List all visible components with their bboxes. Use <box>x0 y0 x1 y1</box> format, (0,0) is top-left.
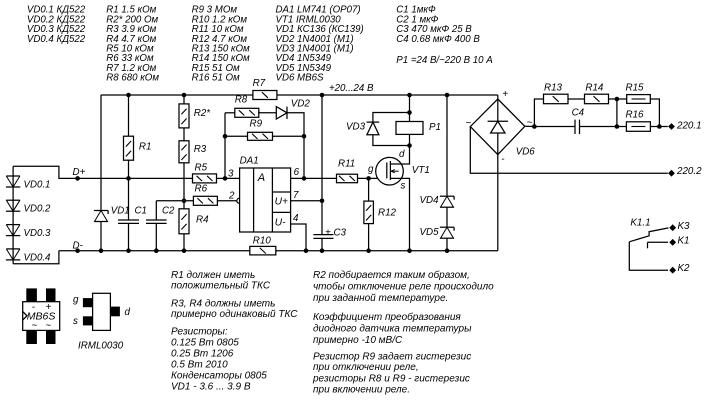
svg-text:R3, R4 должны иметь: R3, R4 должны иметь <box>171 299 275 310</box>
svg-text:при заданной температуре.: при заданной температуре. <box>313 293 448 304</box>
node R2 top <box>182 93 187 98</box>
capacitor C1 <box>118 219 139 221</box>
VT1 body arrow <box>390 170 398 172</box>
svg-text:VD4: VD4 <box>420 195 440 206</box>
svg-text:R2 подбирается таким образом,: R2 подбирается таким образом, <box>313 269 470 281</box>
svg-text:K1: K1 <box>678 236 690 247</box>
terminal 220.1 <box>668 123 675 130</box>
wire R11 to gate <box>358 177 387 179</box>
node VD4 column top <box>445 93 450 98</box>
resistor R11 <box>337 174 358 183</box>
node VD3/P1 top <box>407 110 412 115</box>
node pin3/feedback junction <box>223 176 228 181</box>
wire D- rail right section <box>276 250 498 252</box>
resistor R15 <box>627 95 651 104</box>
wire pin 6 <box>291 177 337 179</box>
wire diode-chain left vertical <box>12 166 14 263</box>
svg-text:резисторы R8 и R9 - гистерезис: резисторы R8 и R9 - гистерезис <box>312 374 470 385</box>
wire R8 line <box>225 112 236 114</box>
resistor R10 <box>250 246 276 255</box>
diode VD0.4 <box>6 259 20 261</box>
wire VD1 column <box>100 95 102 210</box>
wire R14 to node <box>608 98 617 100</box>
wire R1 to D+ rail <box>128 160 130 179</box>
svg-text:~: ~ <box>527 118 533 129</box>
zener VD4 <box>440 195 454 197</box>
svg-text:R13: R13 <box>544 82 563 93</box>
wire R2 column top <box>183 95 185 104</box>
svg-text:s: s <box>401 180 406 191</box>
svg-text:7: 7 <box>293 190 299 201</box>
svg-text:R6: R6 <box>195 183 208 194</box>
VT1 drain stub <box>390 146 409 165</box>
wire R2-R3 link <box>183 128 185 141</box>
wire VD3 branch top <box>373 113 410 123</box>
wire P1 bottom link <box>409 134 411 145</box>
diode VD0.2 <box>6 210 20 212</box>
svg-text:VD0.4: VD0.4 <box>24 252 52 263</box>
resistor R8 <box>235 108 259 117</box>
wire bridge plus drop <box>497 95 499 99</box>
svg-text:2: 2 <box>228 191 235 202</box>
wire pin 7 <box>291 200 322 202</box>
svg-text:C4: C4 <box>572 108 585 119</box>
svg-text:P1: P1 <box>429 122 441 133</box>
op-amp DA1 body <box>240 168 291 232</box>
svg-text:~: ~ <box>32 321 38 332</box>
node pin7/C3 junction <box>320 199 325 204</box>
node R9 right <box>302 134 307 139</box>
IRML0030 gate pad <box>83 298 93 307</box>
svg-text:VD6 MB6S: VD6 MB6S <box>276 73 324 84</box>
left feedback column <box>224 113 226 179</box>
svg-text:R1: R1 <box>139 141 152 152</box>
wire VD5 to D- rail <box>446 238 448 251</box>
svg-text:d: d <box>399 149 405 160</box>
wire C1 column <box>128 178 130 220</box>
svg-text:D+: D+ <box>73 167 86 178</box>
wire R1 column top <box>128 95 130 137</box>
svg-text:VD0.3: VD0.3 <box>24 228 52 239</box>
node pin4 bottom <box>304 248 309 253</box>
svg-text:VD6: VD6 <box>516 147 536 158</box>
terminal K2 <box>669 267 676 274</box>
wire chain bottom jog to D- <box>13 251 59 264</box>
wire R5 to pin 3 <box>217 177 240 179</box>
svg-text:R8 680 кОм: R8 680 кОм <box>106 73 159 84</box>
diode VD0.3 <box>6 235 20 237</box>
svg-text:d: d <box>125 307 131 318</box>
MB6S package bottom pads <box>26 330 37 344</box>
relay contact K1.1 common pole <box>629 242 668 270</box>
bridge internal diode <box>497 99 499 121</box>
node pin6 junction <box>302 176 307 181</box>
wire top bias rail right of R7 <box>276 94 498 96</box>
node C3 column top <box>320 93 325 98</box>
node gate/R12 junction <box>366 176 371 181</box>
svg-text:R16: R16 <box>626 110 645 121</box>
svg-text:R5: R5 <box>195 163 208 174</box>
svg-text:R2*: R2* <box>194 108 212 119</box>
zener VD5 <box>440 226 454 228</box>
svg-text:g: g <box>368 164 374 175</box>
transistor VT1 body circle <box>376 157 404 185</box>
node C1 bottom <box>126 248 131 253</box>
svg-text:R14: R14 <box>585 82 604 93</box>
wire R8 to VD2 <box>258 112 276 114</box>
VT1 channel bar <box>389 161 391 180</box>
svg-text:~: ~ <box>46 321 52 332</box>
node R3/R4/pin2 junction <box>182 199 187 204</box>
vertical R14/C4 link <box>616 99 618 127</box>
wire VD4 to VD5 <box>446 207 448 227</box>
svg-text:Резисторы:: Резисторы: <box>171 327 228 338</box>
wire C2 to D- rail <box>155 223 157 250</box>
resistor R2* <box>179 104 189 128</box>
svg-text:R8: R8 <box>235 94 248 105</box>
svg-text:при включении реле.: при включении реле. <box>313 385 410 396</box>
wire to R15 <box>617 98 627 100</box>
svg-text:R3: R3 <box>194 144 207 155</box>
node C4/R16 junction <box>615 124 620 129</box>
VT1 gate bar <box>386 163 388 179</box>
svg-text:220.2: 220.2 <box>676 166 702 177</box>
wire bridge AC right to node <box>525 125 535 127</box>
svg-text:R1 должен иметь: R1 должен иметь <box>171 270 255 281</box>
svg-text:K3: K3 <box>678 221 691 232</box>
bridge rectifier VD6 diamond <box>470 99 525 155</box>
svg-text:D-: D- <box>73 240 84 251</box>
node D- <box>75 248 80 253</box>
svg-text:0.125 Вт 0805: 0.125 Вт 0805 <box>171 337 239 348</box>
node R12 bottom <box>366 248 371 253</box>
resistor R3 <box>179 141 189 163</box>
wire chain top jog to D+ <box>13 166 78 178</box>
node R9 left <box>223 134 228 139</box>
op-amp internal dividers <box>253 168 255 232</box>
wire VD4/VD5 column <box>446 95 448 196</box>
node R1 top <box>126 93 131 98</box>
svg-text:6: 6 <box>294 167 300 178</box>
svg-text:VT1: VT1 <box>412 165 430 176</box>
diode VD3 <box>367 121 380 123</box>
svg-text:C2: C2 <box>162 206 175 217</box>
IRML0030 drain pad <box>110 307 120 317</box>
svg-text:R12: R12 <box>378 208 397 219</box>
svg-text:U+: U+ <box>275 196 288 207</box>
resistor R1 <box>124 136 134 160</box>
VT1 source stub <box>390 178 409 250</box>
svg-text:R15: R15 <box>626 82 645 93</box>
svg-text:примерно -10 мВ/С: примерно -10 мВ/С <box>313 335 403 346</box>
svg-text:0.25 Вт 1206: 0.25 Вт 1206 <box>171 348 234 359</box>
wire C4 line left <box>534 126 575 128</box>
svg-text:VD3: VD3 <box>346 121 366 132</box>
node VD1 bottom <box>99 248 104 253</box>
svg-text:R16 51 Ом: R16 51 Ом <box>192 73 240 84</box>
wire R12 to D- rail <box>368 224 370 251</box>
node C2 bottom <box>154 248 159 253</box>
resistor R4 <box>179 209 189 234</box>
diode VD2 <box>276 107 287 119</box>
terminal K3 <box>669 224 676 231</box>
wire bridge minus drop to D- rail <box>497 155 499 251</box>
node VD5 bottom <box>445 248 450 253</box>
wire R15 right corner down <box>650 99 659 127</box>
wire P1 column from rail <box>409 95 411 122</box>
terminal 220.2 <box>668 170 675 177</box>
svg-text:R11: R11 <box>338 158 355 169</box>
svg-text:Резистор R9 задает гистерезис: Резистор R9 задает гистерезис <box>313 352 471 363</box>
svg-text:4: 4 <box>293 213 299 224</box>
svg-text:примерно одинаковый ТКС: примерно одинаковый ТКС <box>171 309 298 320</box>
resistor R14 <box>585 94 609 104</box>
node C4/R13 junction <box>532 124 537 129</box>
IRML0030 package body <box>93 293 111 330</box>
wire R9 line right <box>273 135 305 137</box>
svg-text:R10: R10 <box>253 235 272 246</box>
relay coil P1 <box>396 122 423 135</box>
node P1 column top <box>407 93 412 98</box>
svg-text:+: + <box>502 89 508 100</box>
resistor R12 <box>364 201 374 224</box>
wire D+ rail to R5 <box>78 177 193 179</box>
svg-text:+ C3: + C3 <box>325 227 347 238</box>
wire up to R13 line <box>534 99 543 127</box>
node C3 bottom <box>320 248 325 253</box>
svg-text:VD2: VD2 <box>291 98 311 109</box>
K1 fixed contact <box>648 241 669 243</box>
wire C3 to D- rail <box>321 238 323 250</box>
wire R16 right <box>650 126 667 128</box>
svg-text:IRML0030: IRML0030 <box>78 340 124 351</box>
wire 220.2 line from bridge AC left <box>470 127 668 174</box>
wire top bias rail left of R7 <box>101 94 253 96</box>
svg-text:s: s <box>73 316 78 327</box>
svg-text:Конденсаторы 0805: Конденсаторы 0805 <box>171 370 267 381</box>
svg-text:диодного датчика температуры: диодного датчика температуры <box>313 324 472 335</box>
svg-text:VD5: VD5 <box>420 227 440 238</box>
wire pin 4 <box>291 224 306 251</box>
wire to R16 <box>617 126 626 128</box>
resistor R13 <box>544 94 569 104</box>
svg-text:при отключении реле,: при отключении реле, <box>313 362 419 373</box>
svg-text:VD0.4 КД522: VD0.4 КД522 <box>27 34 86 45</box>
diode VD0.1 <box>6 186 20 188</box>
node R15/R16 right junction <box>657 124 662 129</box>
svg-text:VD1: VD1 <box>111 206 130 217</box>
svg-text:VD0.2: VD0.2 <box>24 204 52 215</box>
svg-text:R4: R4 <box>196 215 209 226</box>
node R14/R15 junction <box>615 97 620 102</box>
wire R4 links <box>183 201 185 209</box>
resistor R9 <box>248 132 273 140</box>
node R4 bottom <box>182 248 187 253</box>
wire R9 line left <box>225 135 248 137</box>
node R1/C1/D+ junction <box>126 176 131 181</box>
svg-text:A: A <box>257 172 265 184</box>
svg-text:VD0.1: VD0.1 <box>24 180 51 191</box>
K1.1 moving arm <box>629 228 668 242</box>
svg-text:+20...24 В: +20...24 В <box>329 83 374 94</box>
svg-text:~: ~ <box>466 118 472 129</box>
svg-text:VD1 - 3.6 ... 3.9 В: VD1 - 3.6 ... 3.9 В <box>171 382 251 393</box>
wire C3 column <box>321 95 323 235</box>
svg-text:C1: C1 <box>135 206 147 217</box>
svg-text:C4 0.68 мкФ 400 В: C4 0.68 мкФ 400 В <box>396 34 480 45</box>
svg-text:Коэффициент преобразования: Коэффициент преобразования <box>313 311 461 323</box>
wire R6 to pin 2 bubble <box>217 200 237 202</box>
wire VD3 branch bottom <box>373 135 410 146</box>
svg-text:0.5 Вт 2010: 0.5 Вт 2010 <box>171 359 228 370</box>
node D+ <box>75 176 80 181</box>
MB6S pin1 chamfer mark <box>23 312 27 321</box>
capacitor C2 <box>146 219 167 221</box>
node source bottom <box>407 248 412 253</box>
zener VD1 <box>94 210 108 212</box>
svg-text:g: g <box>73 295 79 306</box>
svg-text:U-: U- <box>275 218 286 229</box>
capacitor C4 <box>574 120 576 134</box>
wire D- rail left section <box>59 250 250 252</box>
resistor R16 <box>626 122 650 132</box>
svg-text:K1.1: K1.1 <box>630 217 650 228</box>
wire pin2 line left <box>156 200 193 202</box>
svg-text:-: - <box>501 154 505 165</box>
MB6S package top pads <box>26 288 37 301</box>
svg-text:K2: K2 <box>678 263 691 274</box>
svg-text:R9: R9 <box>250 118 263 129</box>
svg-text:R7: R7 <box>253 78 266 89</box>
wire C2 column <box>155 201 157 220</box>
svg-text:чтобы отключение реле происход: чтобы отключение реле происходило <box>313 281 494 293</box>
svg-text:220.1: 220.1 <box>676 121 702 132</box>
MB6S package body <box>23 302 60 331</box>
wire C1 to D- rail <box>128 223 130 250</box>
resistor R7 <box>253 91 277 100</box>
wire VD2 to right column <box>287 113 304 179</box>
wire C4 to node <box>580 126 617 128</box>
svg-text:3: 3 <box>228 168 234 179</box>
wire R13-R14 <box>568 98 585 100</box>
terminal K1 <box>669 239 676 246</box>
svg-text:положительный ТКС: положительный ТКС <box>171 281 271 292</box>
wire R12 column <box>368 178 370 201</box>
wire R3 down across pin3 line <box>183 163 185 201</box>
svg-text:P1 =24 В/~220 В 10 А: P1 =24 В/~220 В 10 А <box>396 55 492 66</box>
pin 2 inversion bubble <box>237 198 242 203</box>
resistor R6 <box>193 196 217 205</box>
resistor R5 <box>193 174 217 183</box>
capacitor C3 <box>313 234 333 236</box>
wire VD1 to D- rail <box>100 222 102 251</box>
node VD3/P1 bottom <box>407 143 412 148</box>
IRML0030 source pad <box>83 316 93 325</box>
svg-text:DA1: DA1 <box>240 155 259 166</box>
